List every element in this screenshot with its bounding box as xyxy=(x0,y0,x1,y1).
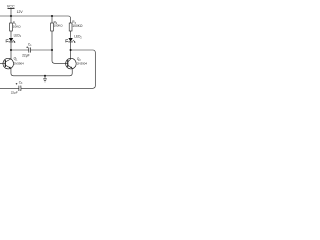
wire VCC to R1 xyxy=(10,16,12,23)
svg-text:2N3904: 2N3904 xyxy=(77,62,88,66)
resistor R2 xyxy=(51,20,64,31)
node junction ground xyxy=(44,75,46,77)
svg-text:22μF: 22μF xyxy=(11,91,18,95)
svg-text:LED2: LED2 xyxy=(74,35,82,40)
wire rail to R2 xyxy=(51,16,53,23)
svg-text:22μF: 22μF xyxy=(22,54,30,58)
node junction rail R2 xyxy=(51,15,53,17)
node junction Q1 collector / C1 xyxy=(10,49,12,51)
node junction Q2 collector / feedback xyxy=(70,49,72,51)
wire C1 right xyxy=(31,49,52,51)
node junction VCC rail xyxy=(10,15,12,17)
svg-text:2N3904: 2N3904 xyxy=(14,61,25,65)
svg-text:100KΩ: 100KΩ xyxy=(72,24,83,28)
LED D2 xyxy=(65,35,82,43)
transistor Q1 xyxy=(0,57,24,69)
node junction C1 / R2 / Q2 base xyxy=(51,49,53,51)
wire emitter rail xyxy=(11,68,72,75)
svg-text:100KΩ: 100KΩ xyxy=(54,24,64,28)
svg-text:C3: C3 xyxy=(19,80,23,85)
ground xyxy=(43,76,47,82)
wire R1 to LED1 xyxy=(10,31,12,38)
wire LED1 to Q1 collector xyxy=(10,42,12,59)
LED D1 xyxy=(5,34,21,43)
svg-text:10KΩ: 10KΩ xyxy=(13,24,22,28)
power flag VCC xyxy=(7,4,15,16)
capacitor C3 xyxy=(11,80,23,94)
wire LED2 to Q2 collector xyxy=(70,42,72,59)
wire VCC top rail xyxy=(0,16,71,23)
resistor R1 xyxy=(10,21,22,31)
wire R2 to cross-coupling node xyxy=(51,31,53,50)
resistor R3 xyxy=(69,20,83,31)
wire collector feedback right side xyxy=(21,50,95,88)
transistor Q2 xyxy=(66,57,88,69)
wire cross-coupling to Q2 base xyxy=(52,50,66,63)
svg-text:VCC: VCC xyxy=(7,4,15,8)
capacitor C1 xyxy=(22,42,32,57)
wire bottom rail left xyxy=(0,87,19,89)
svg-text:C1: C1 xyxy=(28,42,32,47)
wire C1 left xyxy=(11,49,29,51)
svg-text:12V: 12V xyxy=(17,10,24,14)
svg-text:LED1: LED1 xyxy=(14,34,22,39)
wire R3 to LED2 xyxy=(70,31,72,38)
